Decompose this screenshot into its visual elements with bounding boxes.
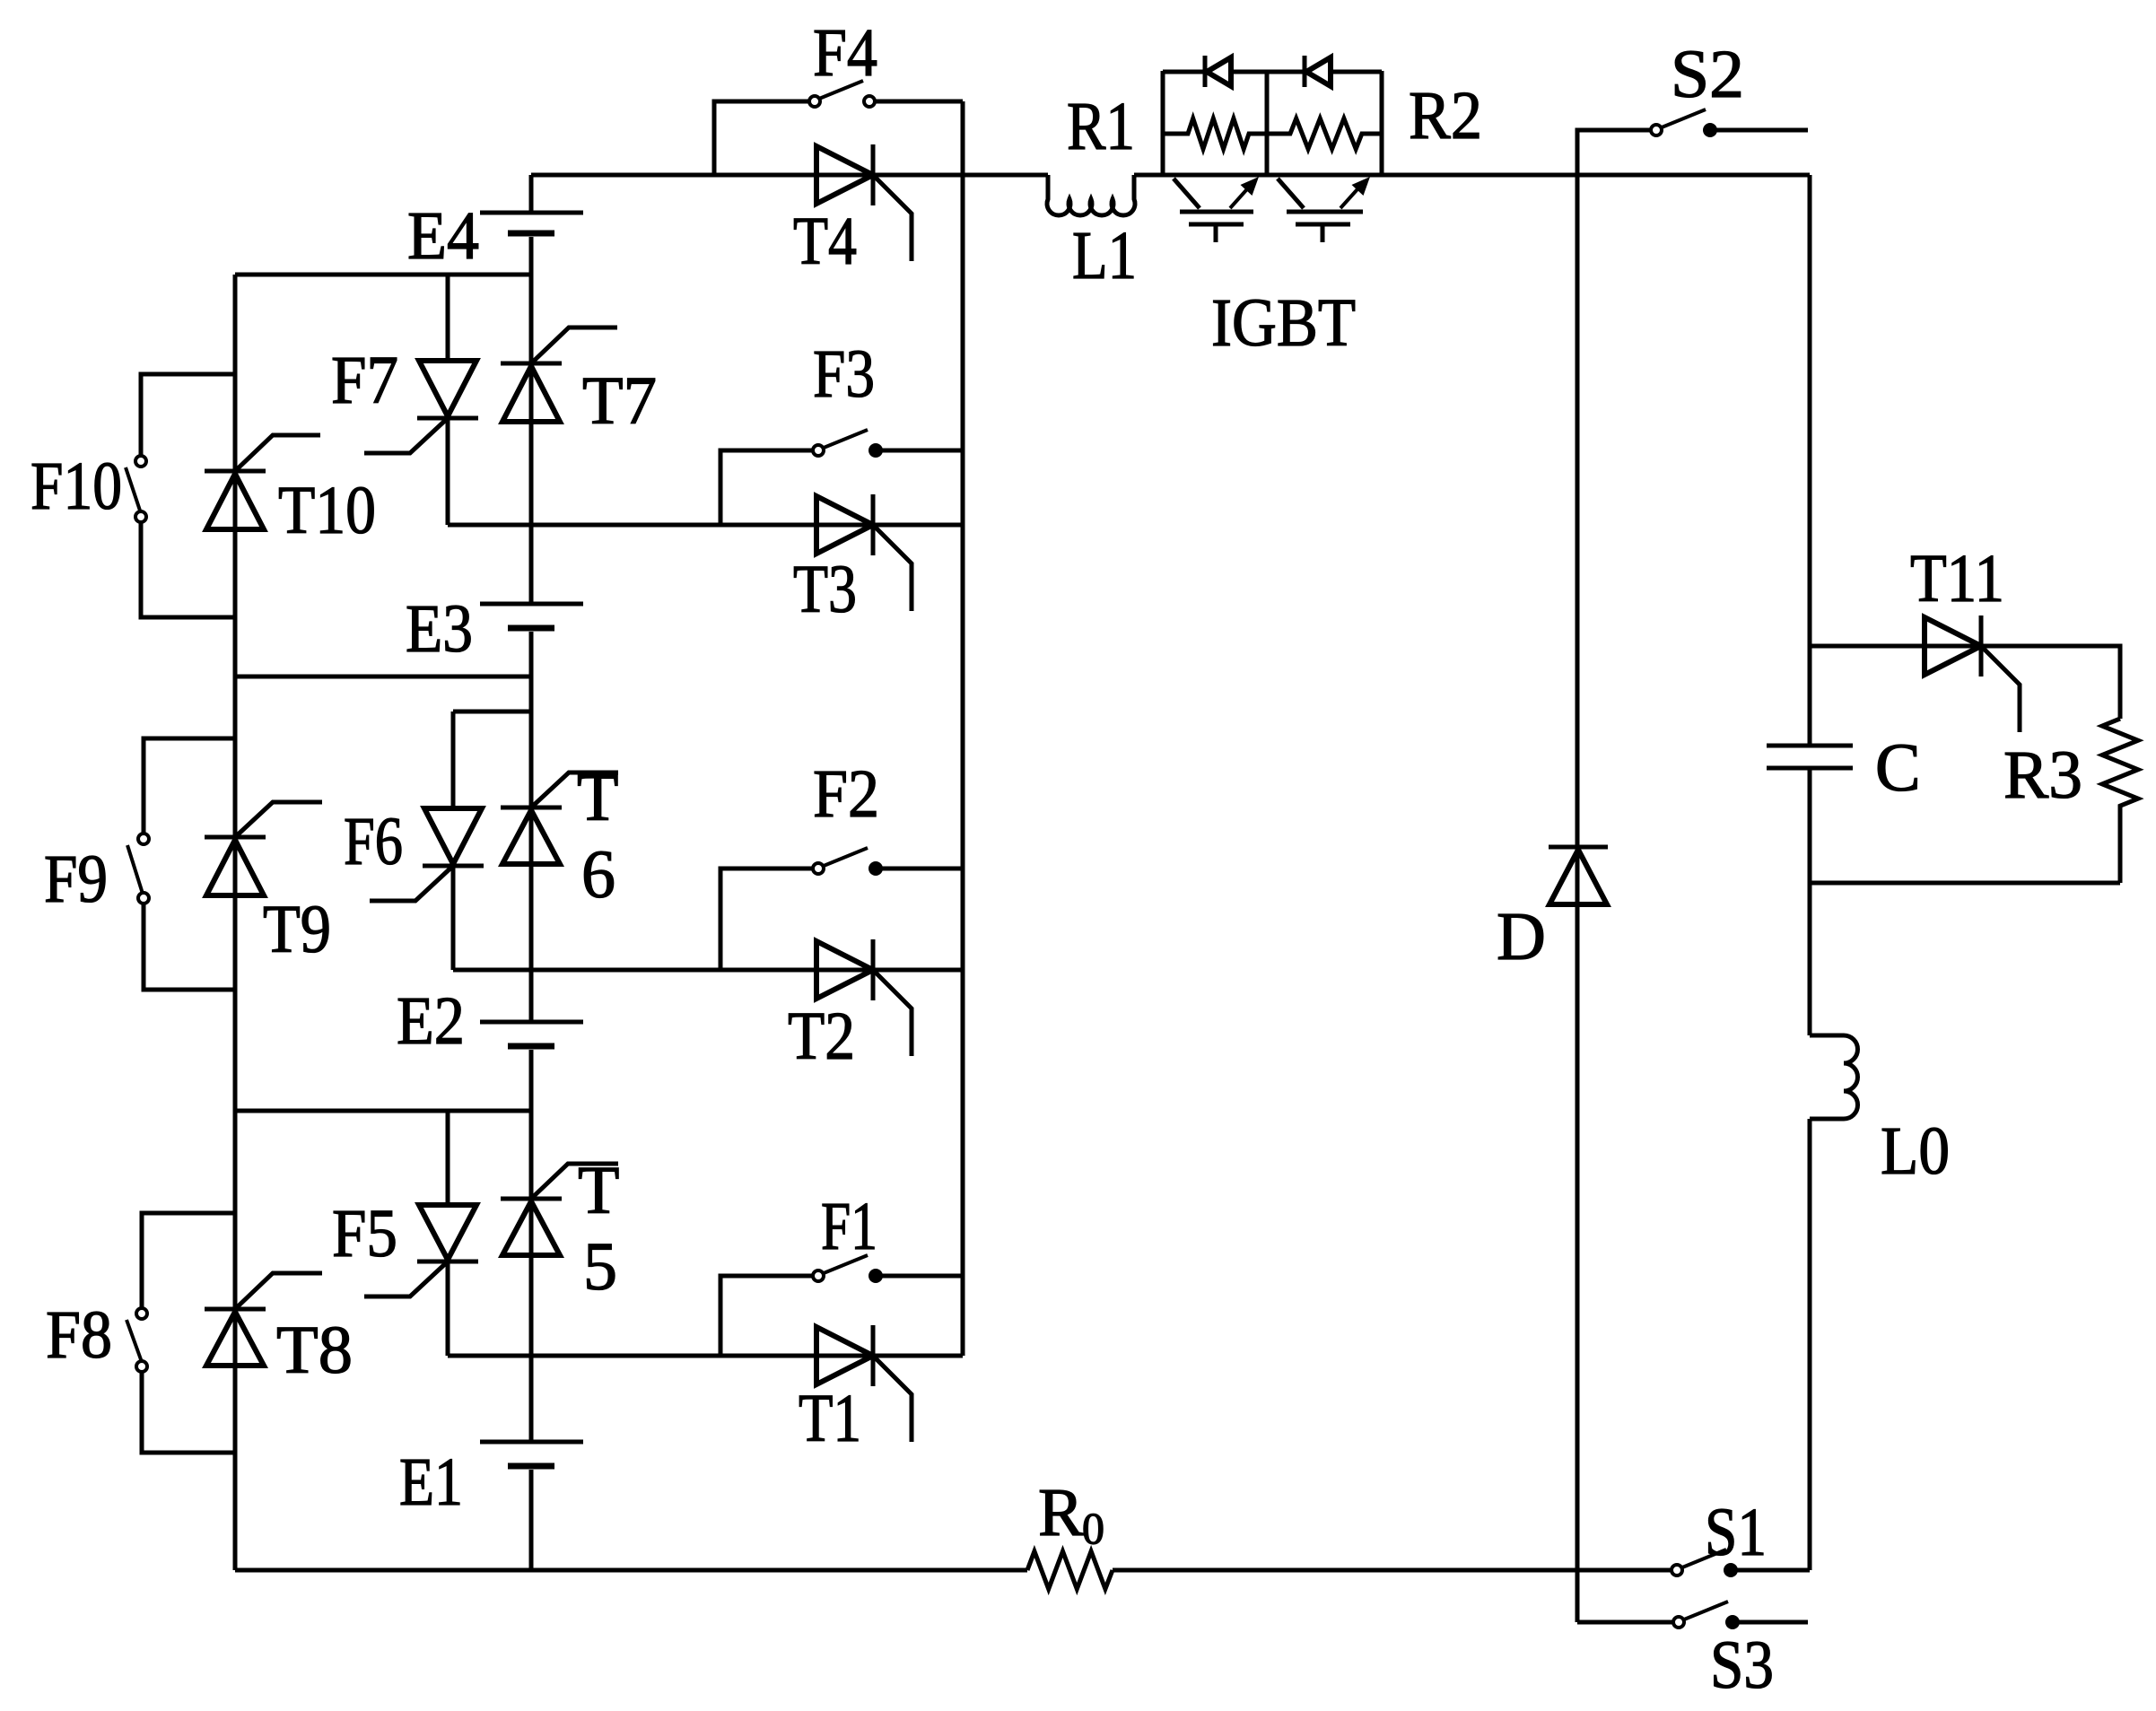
thyristor T4 xyxy=(816,144,912,261)
resistor R3 xyxy=(2102,719,2138,883)
wire: D column xyxy=(1576,130,1580,1622)
wire: E2- line xyxy=(235,1109,531,1113)
switch F3 xyxy=(720,430,963,525)
svg-text:T9: T9 xyxy=(263,892,331,967)
resistor R0 xyxy=(1027,1551,1113,1589)
svg-text:T4: T4 xyxy=(793,204,857,279)
svg-text:F4: F4 xyxy=(813,15,877,91)
inductor L0 xyxy=(1810,1035,1858,1119)
wire: bottom wire left part xyxy=(235,1568,1027,1573)
switch S2 xyxy=(1577,109,1808,175)
wire: E4- line xyxy=(235,273,531,277)
svg-text:E4: E4 xyxy=(407,198,479,274)
switch F10 xyxy=(126,374,235,617)
svg-text:F7: F7 xyxy=(331,343,398,418)
thyristor F6 xyxy=(370,711,531,970)
switch S3 xyxy=(1577,1602,1808,1629)
resistor R1 xyxy=(1163,118,1267,149)
IGBT block left vertical xyxy=(1161,71,1165,175)
IGBT block top wire with diodes xyxy=(1163,70,1382,74)
svg-text:F1: F1 xyxy=(821,1189,877,1264)
svg-text:E2: E2 xyxy=(397,983,465,1059)
wire: right vertical (capacitor to L0) xyxy=(1808,770,1812,1035)
thyristor F7 xyxy=(364,275,478,525)
wire: T1 row xyxy=(448,1354,963,1358)
thyristor T3 xyxy=(816,494,912,611)
diode D2 (freewheel, right) xyxy=(1305,56,1331,87)
svg-text:S1: S1 xyxy=(1705,1495,1767,1570)
IGBT Q1 xyxy=(1174,177,1259,242)
IGBT block right vertical xyxy=(1380,71,1384,175)
battery E1 xyxy=(480,1442,583,1466)
switch F9 xyxy=(127,738,235,990)
svg-text:T: T xyxy=(578,1153,619,1228)
thyristor T10 xyxy=(205,435,320,529)
svg-text:R2: R2 xyxy=(1409,78,1482,153)
svg-text:T1: T1 xyxy=(799,1381,861,1456)
svg-text:T7: T7 xyxy=(582,363,657,439)
wire: E3- line xyxy=(235,675,531,679)
thyristor T11 xyxy=(1925,615,2020,732)
resistor R2 xyxy=(1267,118,1382,149)
wire: E column below E2 xyxy=(529,1050,534,1442)
wire: T3 row xyxy=(448,523,963,528)
svg-text:R3: R3 xyxy=(2003,738,2082,813)
thyristor T5 xyxy=(501,1164,618,1255)
wire: T11 bottom branch xyxy=(1810,881,2120,886)
battery E2 xyxy=(480,1022,583,1046)
svg-text:F5: F5 xyxy=(332,1196,397,1271)
switch F8 xyxy=(127,1213,235,1453)
wire: left column xyxy=(233,275,238,1570)
svg-text:IGBT: IGBT xyxy=(1211,285,1356,361)
wire: right vertical top (main corner to capacitor) xyxy=(1808,175,1812,744)
svg-text:D: D xyxy=(1497,899,1546,974)
wire: right vertical (L0 to S1 corner) xyxy=(1808,1119,1812,1570)
svg-text:L0: L0 xyxy=(1881,1113,1950,1189)
svg-text:F8: F8 xyxy=(46,1297,112,1373)
svg-text:F6: F6 xyxy=(344,804,403,879)
svg-text:L1: L1 xyxy=(1072,218,1137,293)
wire: middle vertical bus xyxy=(961,101,965,1356)
wire: E column below E4 xyxy=(529,237,534,604)
svg-text:0: 0 xyxy=(1082,1503,1104,1553)
svg-text:R1: R1 xyxy=(1067,89,1135,164)
svg-text:F2: F2 xyxy=(813,756,879,832)
IGBT Q2 xyxy=(1278,177,1370,242)
wire: E column below E3 xyxy=(529,632,534,1022)
diode D xyxy=(1549,847,1608,904)
thyristor F5 xyxy=(364,1111,478,1356)
diode D1 (freewheel, left) xyxy=(1205,56,1231,87)
svg-text:F3: F3 xyxy=(813,336,875,412)
svg-text:E1: E1 xyxy=(399,1445,463,1520)
switch S1 xyxy=(1672,1550,1810,1577)
thyristor T9 xyxy=(205,802,322,895)
svg-text:5: 5 xyxy=(583,1229,617,1305)
battery column: E column vertical segments xyxy=(529,175,534,213)
wire: main top wire right part (IGBT block to right corner) xyxy=(1134,173,1810,178)
thyristor T1 xyxy=(816,1325,912,1442)
thyristor T7 xyxy=(501,327,617,422)
switch F2 xyxy=(720,848,963,970)
wire: T11 top branch xyxy=(1810,646,2120,719)
svg-text:T11: T11 xyxy=(1910,541,2004,616)
battery E4 xyxy=(480,213,583,233)
battery E3 xyxy=(480,604,583,628)
thyristor T2 xyxy=(816,939,912,1056)
svg-text:S2: S2 xyxy=(1671,37,1744,112)
svg-text:C: C xyxy=(1875,730,1921,806)
svg-text:T3: T3 xyxy=(793,552,857,627)
wire: bottom wire right part xyxy=(1113,1568,1672,1573)
svg-text:T: T xyxy=(577,760,618,835)
switch F1 xyxy=(720,1255,963,1356)
svg-text:R: R xyxy=(1038,1475,1084,1550)
thyristor T6 xyxy=(501,773,618,864)
svg-text:F10: F10 xyxy=(31,449,122,524)
svg-text:T10: T10 xyxy=(278,473,376,548)
svg-text:E3: E3 xyxy=(406,591,473,667)
IGBT block middle vertical xyxy=(1265,71,1270,175)
inductor L1 xyxy=(1047,175,1135,215)
svg-text:S3: S3 xyxy=(1710,1628,1774,1703)
switch F4 xyxy=(714,81,963,175)
wire: T2 row xyxy=(453,968,963,973)
capacitor C xyxy=(1767,746,1853,768)
thyristor T8 xyxy=(205,1273,322,1366)
wire: E column below E1 to bottom wire xyxy=(529,1470,534,1570)
svg-text:T2: T2 xyxy=(788,999,855,1074)
svg-text:6: 6 xyxy=(581,837,615,912)
svg-text:F9: F9 xyxy=(44,842,108,917)
svg-text:T8: T8 xyxy=(276,1313,353,1388)
wire: main top wire left part (E4+ to L1) xyxy=(531,173,1048,178)
